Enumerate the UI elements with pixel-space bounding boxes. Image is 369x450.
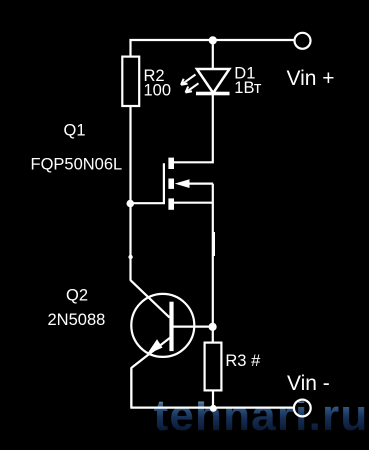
Q2 emitter arrow	[147, 339, 163, 354]
node base junction	[209, 323, 217, 331]
wire jog on source-to-base wire	[213, 232, 215, 256]
LED arrow 2	[186, 83, 199, 92]
node junction top	[209, 36, 217, 44]
node bottom junction	[210, 405, 217, 412]
svg-text:Vin +: Vin +	[287, 67, 335, 90]
transistor Q2 circle	[131, 294, 194, 357]
wire R3 bottom	[212, 391, 214, 409]
wire D1 cathode to Q1 drain	[173, 94, 213, 162]
svg-text:R3 #: R3 #	[225, 352, 261, 370]
wire top to D1 anode	[212, 39, 214, 70]
Q2 base bar	[169, 302, 173, 351]
svg-text:Q2: Q2	[66, 287, 88, 305]
svg-text:1Вт: 1Вт	[234, 79, 262, 97]
svg-text:Vin -: Vin -	[287, 372, 330, 395]
node on gate wire	[128, 255, 132, 259]
svg-text:2N5088: 2N5088	[48, 311, 106, 329]
LED D1 triangle	[197, 69, 230, 93]
wire R2 bottom to gate node	[129, 106, 131, 281]
Q1 body arrow	[188, 183, 213, 185]
Q2 base wire	[174, 326, 211, 328]
svg-text:FQP50N06L: FQP50N06L	[31, 156, 123, 174]
node gate junction	[127, 200, 135, 208]
terminal Vin+	[295, 33, 311, 49]
wire bottom rail Vin-	[131, 368, 294, 408]
Q2 emitter wire	[131, 337, 170, 407]
Q1 body bar	[168, 179, 174, 189]
Q1 drain bar	[168, 158, 174, 169]
wire collector diagonal	[131, 280, 170, 317]
wire Q1 source stub	[173, 202, 213, 204]
wire Q1 source down to base node	[212, 184, 214, 342]
resistor R2	[122, 57, 139, 106]
transistor Q1 MOSFET gate	[132, 163, 164, 203]
resistor R3	[205, 343, 222, 391]
svg-text:Q1: Q1	[64, 122, 86, 140]
Q1 source bar	[168, 198, 174, 209]
svg-text:100: 100	[144, 82, 172, 100]
LED arrow 1	[181, 75, 196, 85]
wire top rail Vin+	[131, 40, 295, 57]
terminal Vin-	[294, 400, 311, 417]
LED D1 cathode bar	[196, 92, 230, 96]
